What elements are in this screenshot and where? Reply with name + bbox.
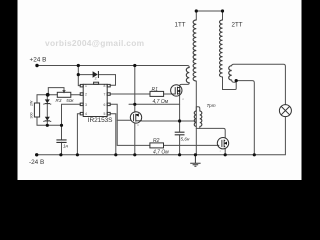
svg-text:vorbis2004@gmail.com: vorbis2004@gmail.com — [45, 38, 144, 48]
svg-text:300: 300 — [30, 113, 34, 119]
svg-text:4,7 Ом: 4,7 Ом — [153, 150, 169, 156]
svg-text:2ТТ: 2ТТ — [232, 22, 243, 29]
svg-text:1: 1 — [85, 84, 87, 88]
svg-text:5: 5 — [104, 112, 106, 116]
svg-text:3: 3 — [85, 103, 87, 107]
svg-text:6: 6 — [104, 103, 106, 107]
svg-text:4,7 Ом: 4,7 Ом — [153, 99, 169, 105]
svg-text:50к: 50к — [66, 98, 74, 103]
svg-text:2: 2 — [85, 93, 87, 97]
svg-text:R3: R3 — [56, 98, 62, 103]
svg-text:7: 7 — [104, 93, 106, 97]
svg-text:5,6н: 5,6н — [181, 136, 190, 141]
svg-text:г: г — [220, 149, 221, 153]
svg-text:Трт: Трт — [207, 103, 216, 108]
svg-text:R1: R1 — [152, 87, 159, 93]
svg-text:4: 4 — [85, 112, 87, 116]
svg-text:-24 В: -24 В — [29, 159, 44, 166]
svg-text:+24 В: +24 В — [30, 57, 47, 64]
svg-text:1н: 1н — [63, 144, 69, 149]
svg-text:1ТТ: 1ТТ — [175, 22, 186, 29]
svg-text:2W: 2W — [30, 100, 34, 106]
svg-text:R2: R2 — [153, 138, 160, 144]
svg-text:8: 8 — [104, 84, 106, 88]
svg-text:IR2153S: IR2153S — [88, 117, 113, 124]
